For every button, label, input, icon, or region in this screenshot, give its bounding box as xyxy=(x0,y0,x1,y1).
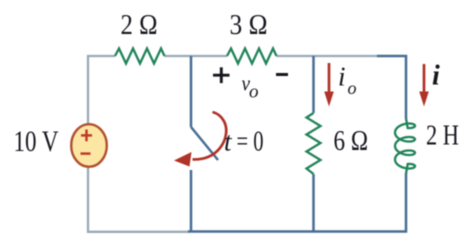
resistor 6 ohm xyxy=(307,113,321,174)
source plus polarity mark xyxy=(81,130,92,142)
svg-text:i: i xyxy=(432,61,440,92)
wire 6-ohm branch lower xyxy=(312,174,315,231)
wire bottom right xyxy=(188,174,406,232)
switch arrowhead xyxy=(174,152,192,167)
source minus polarity mark xyxy=(81,152,91,155)
voltage source 10V xyxy=(71,124,107,167)
wire top right segment xyxy=(277,55,379,57)
wire switch branch upper xyxy=(190,56,193,127)
svg-text:3 Ω: 3 Ω xyxy=(230,10,268,41)
switch arc arrow xyxy=(193,112,227,159)
resistor 3 ohm xyxy=(227,49,277,64)
svg-text:o: o xyxy=(249,82,259,103)
resistor 2 ohm xyxy=(115,49,165,64)
svg-text:= 0: = 0 xyxy=(237,127,264,158)
current arrow i xyxy=(423,64,426,93)
current arrow io xyxy=(328,63,331,93)
wire top middle segment xyxy=(165,55,228,57)
svg-text:o: o xyxy=(348,78,357,98)
inductor 2H xyxy=(395,118,415,173)
svg-text:i: i xyxy=(338,62,346,92)
wire top right corner xyxy=(377,56,406,119)
svg-text:6 Ω: 6 Ω xyxy=(334,126,369,157)
svg-text:10 V: 10 V xyxy=(14,125,59,158)
wire 6-ohm branch upper xyxy=(312,56,315,113)
wire bottom left xyxy=(88,168,189,232)
wire top left segment xyxy=(88,56,115,125)
svg-text:2 Ω: 2 Ω xyxy=(121,10,158,41)
wire switch branch lower xyxy=(190,170,193,231)
label plus of vo xyxy=(213,67,230,83)
label minus of vo xyxy=(276,73,288,76)
svg-text:2 H: 2 H xyxy=(426,121,459,152)
label vo xyxy=(242,70,251,96)
switch blade xyxy=(191,127,218,160)
svg-text:t: t xyxy=(224,127,233,157)
